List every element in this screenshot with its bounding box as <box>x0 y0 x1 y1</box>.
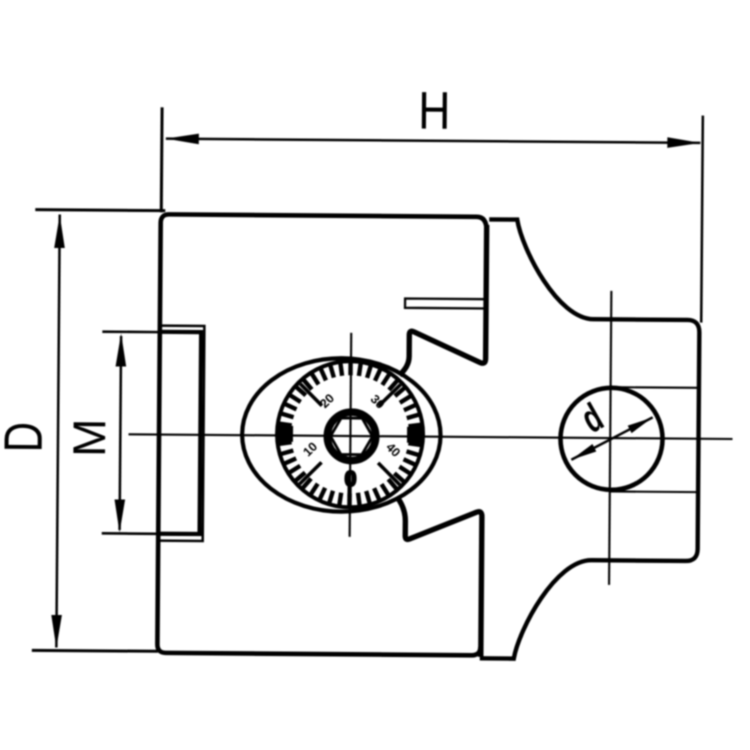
M extension line bottom <box>102 532 203 535</box>
dial pointer line bottom (zero) <box>347 484 351 505</box>
main body outline (rounded square) <box>157 214 486 655</box>
slot strip on body <box>405 299 487 309</box>
bore circle d <box>560 387 663 490</box>
dial index block left <box>278 426 293 442</box>
dial pointer line upper-left <box>300 384 322 406</box>
D extension line top <box>35 210 165 211</box>
H extension line left <box>160 107 164 212</box>
dial rim circle <box>276 361 423 508</box>
M dimension line <box>120 336 122 530</box>
svg-text:D: D <box>0 422 54 453</box>
M extension line top <box>102 330 160 333</box>
d dimension arrowhead lower-left <box>571 444 596 460</box>
bottom clamp claw <box>396 498 482 657</box>
H arrowhead right <box>667 137 700 148</box>
H extension line right <box>701 116 703 323</box>
dial graduation ticks <box>278 362 422 507</box>
D dimension line <box>56 215 59 648</box>
hex socket <box>330 418 372 455</box>
bore silhouette line bottom <box>610 490 697 493</box>
top clamp claw <box>399 224 486 376</box>
right head outline with S-curve necks <box>480 219 700 660</box>
svg-text:M: M <box>63 418 115 457</box>
H dimension line <box>166 139 700 143</box>
M arrowhead bottom <box>114 499 125 532</box>
D extension line bottom <box>32 649 158 653</box>
M arrowhead top <box>116 333 127 366</box>
dial pointer line lower-left <box>299 462 321 484</box>
dial index block right <box>407 427 422 443</box>
d diameter dimension line <box>571 417 652 461</box>
left clamp tab inner thick outline <box>160 332 201 534</box>
dial vertical centerline <box>350 333 352 537</box>
D arrowhead top <box>54 215 65 248</box>
dial pointer line upper-right <box>379 384 401 406</box>
d dimension arrowhead upper-right <box>628 417 653 433</box>
H arrowhead left <box>166 133 199 144</box>
bore vertical centerline <box>609 291 611 585</box>
svg-text:H: H <box>418 82 451 141</box>
dial pointer line lower-right <box>378 463 400 485</box>
bore silhouette line top <box>611 386 698 389</box>
dial housing ellipse boss <box>242 357 442 512</box>
left clamp tab outer thin outline <box>159 326 205 541</box>
hex socket boss ring <box>327 412 376 461</box>
D arrowhead bottom <box>51 615 62 648</box>
main horizontal centerline <box>129 434 733 439</box>
